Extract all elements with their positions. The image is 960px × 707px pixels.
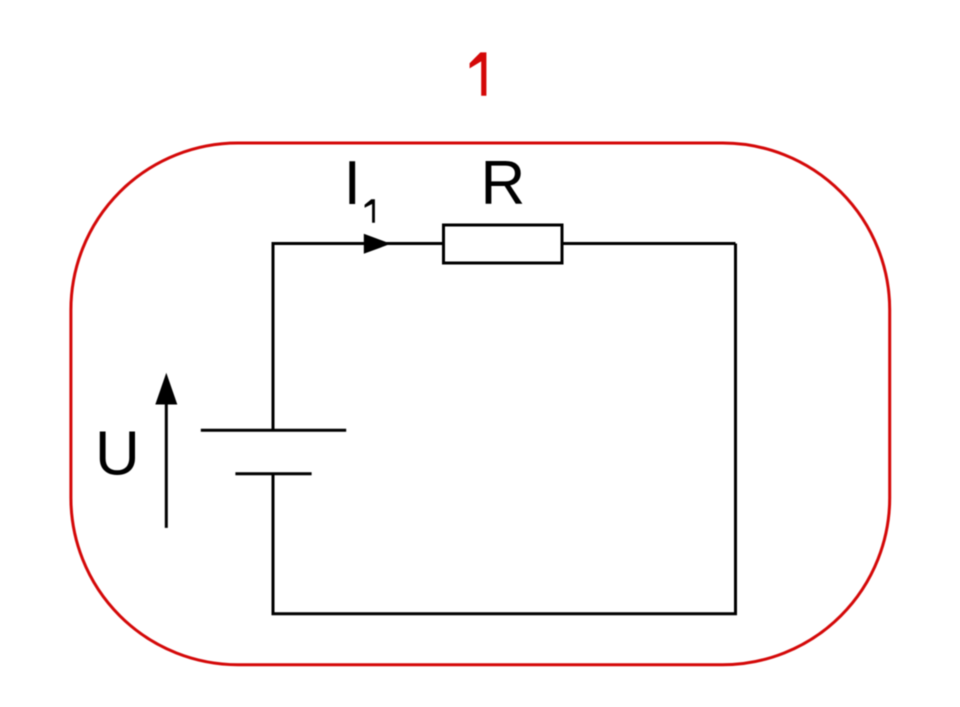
wire top-right from resistor to right side	[562, 242, 736, 245]
battery U short plate	[235, 472, 311, 475]
svg-text:I: I	[344, 149, 361, 218]
battery U long plate	[201, 429, 346, 432]
wire top-left from battery top to resistor	[273, 244, 444, 431]
current arrow I1	[364, 234, 391, 254]
figure number 1	[470, 52, 487, 95]
wire right side and bottom	[273, 244, 736, 614]
svg-text:U: U	[95, 420, 140, 489]
svg-text:R: R	[481, 149, 526, 218]
voltage arrow for U	[165, 400, 168, 528]
resistor R	[444, 225, 563, 263]
